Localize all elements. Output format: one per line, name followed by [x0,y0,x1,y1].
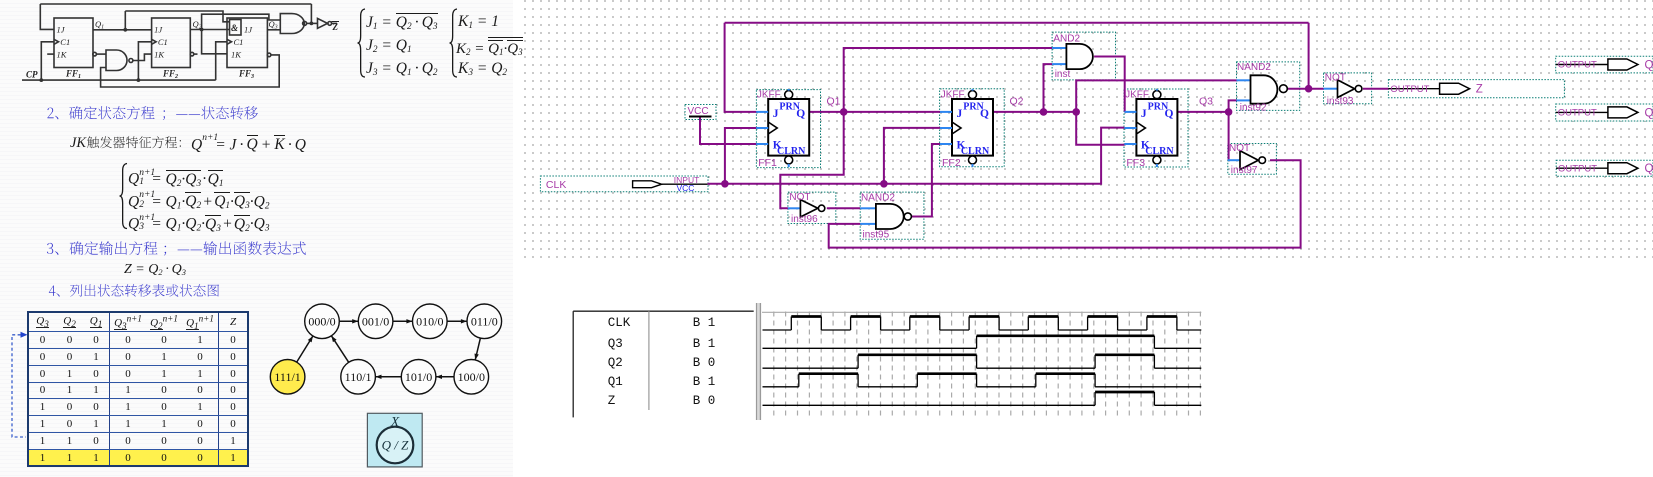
svg-text:C1: C1 [158,37,168,47]
svg-text:FF2: FF2 [942,157,961,169]
svg-text:J: J [773,108,779,120]
svg-text:CP: CP [26,70,38,80]
svg-text:FF1: FF1 [65,69,81,81]
svg-text:B 1: B 1 [693,375,716,389]
svg-text:B 0: B 0 [693,394,716,408]
svg-text:OUTPUT: OUTPUT [1558,60,1597,71]
svg-text:111/1: 111/1 [274,370,300,384]
svg-text:Q1: Q1 [608,375,623,389]
svg-text:inst93: inst93 [1327,96,1354,107]
svg-text:Q: Q [1645,163,1653,175]
svg-text:C1: C1 [60,37,70,47]
svg-text:1K: 1K [57,50,68,60]
svg-text:Q1: Q1 [95,19,104,31]
svg-text:NAND2: NAND2 [861,193,895,204]
svg-text:Q: Q [1645,60,1653,72]
svg-text:JKFF: JKFF [941,90,965,101]
svg-text:CLK: CLK [546,179,566,191]
svg-text:inst96: inst96 [791,214,818,225]
svg-text:Q: Q [796,108,805,120]
svg-text:NAND2: NAND2 [1237,62,1271,73]
svg-text:JKFF: JKFF [1125,90,1149,101]
svg-text:FF2: FF2 [162,69,178,81]
svg-text:Z: Z [608,394,616,408]
svg-text:Z: Z [1476,84,1483,96]
svg-text:CLRN: CLRN [1145,146,1174,157]
svg-text:inst92: inst92 [1240,103,1267,114]
svg-text:CLRN: CLRN [777,146,806,157]
svg-text:NOT: NOT [1229,143,1250,154]
svg-text:NOT: NOT [1325,73,1346,84]
svg-text:J: J [1141,108,1147,120]
svg-text:Q2: Q2 [1010,96,1024,108]
svg-text:101/0: 101/0 [405,370,432,384]
svg-text:AND2: AND2 [1053,34,1080,45]
svg-text:C1: C1 [234,37,244,47]
svg-text:FF3: FF3 [238,69,254,81]
svg-text:Q: Q [980,108,989,120]
svg-text:100/0: 100/0 [458,370,485,384]
svg-text:1J: 1J [57,24,66,34]
svg-text:Q3: Q3 [608,337,623,351]
svg-text:Z: Z [332,22,339,32]
svg-text:Q / Z: Q / Z [382,438,410,453]
svg-text:Q: Q [1645,107,1653,119]
svg-text:1K: 1K [231,50,242,60]
svg-text:Q2: Q2 [193,19,202,31]
svg-text:OUTPUT: OUTPUT [1558,108,1597,119]
svg-text:1J: 1J [154,24,163,34]
svg-text:1J: 1J [244,24,253,34]
svg-text:OUTPUT: OUTPUT [1390,84,1429,95]
svg-text:FF1: FF1 [758,157,777,169]
svg-text:Q1: Q1 [827,96,841,108]
svg-text:J: J [957,108,963,120]
svg-text:CLK: CLK [608,316,631,330]
svg-text:JKFF: JKFF [757,90,781,101]
svg-text:B 1: B 1 [693,337,716,351]
svg-text:110/1: 110/1 [345,370,372,384]
svg-text:CLRN: CLRN [961,146,990,157]
svg-text:Q2: Q2 [608,356,623,370]
svg-text:VCC: VCC [677,183,695,193]
svg-text:000/0: 000/0 [308,314,335,328]
svg-text:inst95: inst95 [863,230,890,241]
svg-text:011/0: 011/0 [471,314,498,328]
svg-text:010/0: 010/0 [416,314,443,328]
svg-text:001/0: 001/0 [362,314,389,328]
svg-text:inst: inst [1055,69,1071,80]
svg-text:Q: Q [1164,108,1173,120]
svg-text:FF3: FF3 [1126,157,1145,169]
svg-text:1K: 1K [154,50,165,60]
svg-text:OUTPUT: OUTPUT [1558,163,1597,174]
svg-text:NOT: NOT [789,192,810,203]
svg-text:&: & [231,23,238,33]
svg-text:Q3: Q3 [1199,96,1213,108]
svg-text:B 0: B 0 [693,356,716,370]
svg-text:B 1: B 1 [693,316,716,330]
svg-text:inst97: inst97 [1231,165,1258,176]
